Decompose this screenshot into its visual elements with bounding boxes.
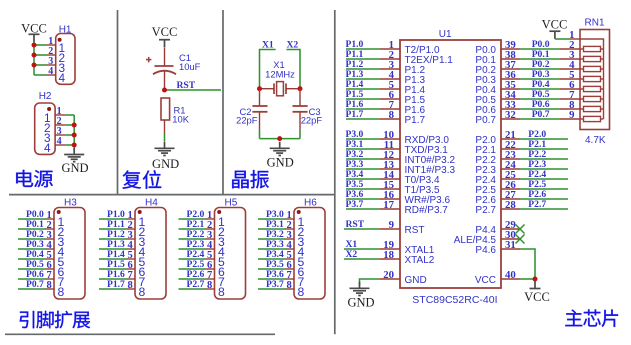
svg-text:4: 4	[59, 71, 66, 85]
capacitor C1	[146, 48, 201, 90]
net labels P1.0-P1.7	[346, 39, 364, 120]
net labels P1.0-P1.7 at H4	[107, 209, 125, 290]
svg-text:H3: H3	[64, 197, 77, 208]
divider horizontal between top sections and pin-expansion	[9, 194, 335, 196]
junction dot VCC node	[533, 277, 538, 282]
net labels P0.0-P0.7 at H3	[26, 209, 44, 290]
junction dot RST node	[162, 88, 167, 93]
svg-text:9: 9	[389, 219, 395, 231]
wire RST to U1 pin 9	[344, 228, 380, 230]
wire U1 pin 40 to VCC node	[520, 278, 535, 280]
svg-text:8: 8	[46, 280, 51, 291]
wire RN1 VCC to pin 1	[555, 38, 570, 40]
svg-text:P2.7: P2.7	[187, 279, 205, 290]
reset section GND symbol	[152, 142, 179, 171]
svg-text:8: 8	[298, 285, 305, 299]
svg-text:GND: GND	[61, 161, 88, 175]
wire RST node	[165, 89, 222, 91]
connector H5	[206, 197, 246, 299]
net labels P3.0-P3.7 at H6	[266, 209, 284, 290]
svg-text:VCC: VCC	[524, 290, 550, 304]
U1 left pins with numbers and names	[380, 39, 456, 286]
wire U1 pin 31 to VCC node	[519, 249, 535, 279]
svg-text:4: 4	[48, 66, 53, 77]
connector H3	[46, 197, 86, 299]
svg-text:P0.7: P0.7	[532, 109, 550, 120]
svg-text:10K: 10K	[172, 113, 189, 124]
wires P1.0-P1.7 to U1	[346, 49, 380, 119]
svg-text:GND: GND	[152, 157, 179, 171]
op IC U1 body	[400, 29, 501, 306]
divider vertical main (left sections vs main chip)	[334, 10, 336, 334]
net labels P3.0-P3.7	[346, 129, 364, 210]
svg-text:P1.7: P1.7	[405, 115, 426, 126]
svg-text:XTAL2: XTAL2	[405, 255, 435, 266]
resistor R1	[161, 98, 190, 134]
wires P0.0-P0.7 to H3	[18, 219, 46, 289]
section title 主芯片	[565, 309, 618, 327]
svg-text:22pF: 22pF	[236, 115, 258, 126]
wires P2.0-P2.7 stubs	[520, 139, 568, 209]
wire VCC to H1 pins	[34, 42, 47, 75]
svg-text:RST: RST	[177, 80, 196, 91]
svg-text:8: 8	[389, 109, 395, 121]
svg-text:P2.7: P2.7	[528, 199, 546, 210]
wires P2.0-P2.7 to H5	[179, 219, 207, 289]
svg-text:17: 17	[383, 199, 394, 211]
connector H2	[35, 91, 66, 155]
svg-text:8: 8	[218, 285, 225, 299]
svg-text:VCC: VCC	[542, 18, 568, 32]
wire H2 pins to GND	[66, 115, 74, 151]
svg-text:40: 40	[505, 269, 516, 281]
svg-text:VCC: VCC	[475, 275, 496, 286]
junction dot crystal left	[257, 86, 262, 91]
svg-text:H4: H4	[145, 197, 158, 208]
svg-text:P1.7: P1.7	[346, 109, 364, 120]
svg-text:H2: H2	[39, 91, 52, 102]
RN1 VCC symbol	[542, 18, 568, 39]
svg-text:STC89C52RC-40I: STC89C52RC-40I	[412, 294, 497, 306]
svg-text:P1.7: P1.7	[107, 279, 125, 290]
svg-text:U1: U1	[439, 29, 452, 40]
svg-text:28: 28	[505, 199, 516, 211]
svg-text:H6: H6	[304, 197, 317, 208]
no-connect X on U1 pin 29	[516, 225, 525, 234]
net labels P0.0-P0.7	[532, 39, 550, 120]
crystal section GND symbol	[267, 142, 294, 170]
divider vertical between reset and crystal sections	[222, 10, 224, 195]
connector H4	[127, 197, 167, 299]
svg-text:P4.6: P4.6	[475, 245, 496, 256]
svg-text:18: 18	[383, 249, 394, 261]
resistor network RN1 with pins 1-9 and value 4.7K	[560, 17, 610, 146]
svg-text:GND: GND	[267, 155, 294, 169]
svg-text:H1: H1	[59, 24, 72, 35]
connector H1	[47, 24, 76, 85]
wires P1.0-P1.7 to H4	[99, 219, 127, 289]
divider vertical between power and reset sections	[117, 10, 119, 195]
junction dot crystal right	[298, 86, 303, 91]
svg-text:RST: RST	[405, 225, 425, 236]
svg-text:GND: GND	[347, 296, 374, 310]
U1 GND symbol	[347, 282, 374, 310]
svg-text:P3.7: P3.7	[266, 279, 284, 290]
net labels P2.0-P2.7	[528, 129, 546, 210]
svg-text:RST: RST	[346, 219, 365, 230]
svg-text:32: 32	[505, 109, 516, 121]
wires P3.0-P3.7 to H6	[258, 219, 286, 289]
divider horizontal bottom of pin-expansion	[5, 333, 275, 335]
svg-text:RN1: RN1	[585, 17, 605, 28]
wire X2 net to crystal	[287, 50, 301, 89]
connector H6	[286, 197, 326, 299]
wires P0.0-P0.7 U1 to RN1	[520, 49, 560, 119]
section title 电源	[16, 170, 53, 187]
svg-text:20: 20	[383, 269, 394, 281]
svg-text:X2: X2	[346, 249, 358, 260]
svg-text:22pF: 22pF	[301, 115, 323, 126]
svg-text:VCC: VCC	[152, 25, 178, 39]
svg-text:12MHz: 12MHz	[265, 68, 295, 79]
section title 晶振	[232, 170, 269, 188]
U1 right pins with numbers and names	[454, 39, 520, 286]
svg-text:8: 8	[207, 280, 212, 291]
svg-text:P3.7: P3.7	[346, 199, 364, 210]
crystal X1	[260, 59, 301, 96]
power section GND symbol	[61, 148, 88, 175]
wire X2 to U1 pin 18	[344, 258, 380, 260]
svg-text:H5: H5	[225, 197, 238, 208]
section title 引脚扩展	[20, 311, 91, 329]
power VCC symbol	[21, 22, 47, 42]
reset VCC symbol	[152, 25, 178, 47]
svg-text:GND: GND	[405, 275, 427, 286]
wire C2 C3 to GND	[260, 130, 301, 139]
U1 VCC symbol	[524, 281, 550, 305]
svg-text:P0.7: P0.7	[26, 279, 44, 290]
wire X1 to U1 pin 19	[344, 248, 380, 250]
capacitor C3	[293, 89, 323, 130]
svg-text:P2.7: P2.7	[475, 205, 496, 216]
junction dots on H2 wire	[72, 123, 77, 148]
capacitor C2	[236, 89, 267, 130]
svg-text:10uF: 10uF	[179, 61, 201, 72]
svg-text:8: 8	[286, 280, 291, 291]
junction dots on VCC wire	[32, 43, 37, 68]
svg-text:8: 8	[127, 280, 132, 291]
svg-text:8: 8	[139, 285, 146, 299]
junction dot crystal GND node	[277, 136, 282, 141]
net labels P2.0-P2.7 at H5	[187, 209, 205, 290]
wire X1 net to crystal	[260, 50, 276, 89]
svg-text:RD#/P3.7: RD#/P3.7	[405, 205, 449, 216]
wire R1 to GND	[164, 134, 166, 142]
svg-text:P0.7: P0.7	[475, 115, 496, 126]
svg-text:4: 4	[44, 141, 51, 155]
section title 复位	[122, 170, 161, 189]
wire U1 GND pin 20 to ground	[360, 279, 381, 285]
svg-text:9: 9	[569, 109, 575, 121]
svg-text:31: 31	[505, 239, 516, 251]
svg-text:8: 8	[58, 285, 65, 299]
no-connect X on U1 pin 30	[516, 235, 525, 244]
wires P3.0-P3.7 to U1	[346, 139, 380, 209]
svg-text:4.7K: 4.7K	[585, 135, 606, 146]
svg-text:4: 4	[57, 136, 62, 147]
